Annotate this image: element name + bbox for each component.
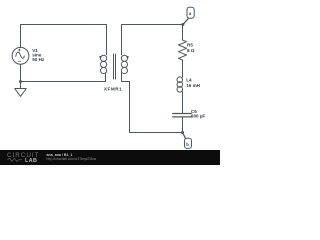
svg-text:XFMR1: XFMR1	[104, 87, 122, 92]
svg-text:R5: R5	[187, 43, 193, 48]
svg-text:600 µF: 600 µF	[191, 114, 206, 119]
inductor L4	[177, 77, 183, 83]
wire R5 to L4	[182, 60, 184, 77]
wire right column R5 top lead	[182, 25, 184, 41]
wire primary bottom lead	[105, 74, 107, 82]
svg-text:LAB: LAB	[25, 158, 37, 164]
voltage source V1 circle	[12, 47, 29, 64]
transformer phase dot primary	[99, 56, 101, 58]
wire secondary bottom jog	[122, 75, 183, 133]
node b flag	[183, 133, 186, 139]
V1 minus mark	[18, 60, 21, 62]
wire C6 to bottom	[182, 117, 184, 133]
svg-text:b: b	[186, 142, 189, 147]
wire top-right	[122, 24, 184, 26]
capacitor C6 plates	[173, 113, 192, 115]
svg-text:50 Hz: 50 Hz	[32, 57, 45, 62]
junction dot ground	[19, 80, 22, 83]
svg-text:L4: L4	[186, 78, 192, 83]
resistor R5 zigzag	[178, 40, 186, 60]
V1 sine symbol	[16, 52, 25, 58]
node a flag	[183, 18, 188, 24]
svg-text:16 mH: 16 mH	[186, 83, 200, 88]
transformer core	[114, 54, 116, 79]
junction dot node a	[181, 23, 184, 26]
wire L4 to C6	[182, 92, 184, 114]
transformer phase dot secondary	[127, 56, 129, 58]
logo squiggle	[8, 158, 23, 161]
wire left column above source	[20, 25, 22, 48]
svg-text:http://circuitlab.com/c/3Tkny6: http://circuitlab.com/c/3Tkny67Mcw	[47, 157, 97, 161]
wire bottom-left	[21, 81, 106, 83]
transformer XFMR1 secondary winding	[121, 25, 123, 55]
ground	[20, 82, 22, 89]
watermark bar	[0, 150, 220, 165]
svg-text:8 Ω: 8 Ω	[187, 48, 195, 53]
junction dot node b	[181, 131, 184, 134]
wire left column below source	[20, 64, 22, 81]
transformer XFMR1 primary winding	[106, 25, 108, 55]
V1 plus mark	[18, 49, 20, 51]
wire top-left	[21, 24, 107, 26]
